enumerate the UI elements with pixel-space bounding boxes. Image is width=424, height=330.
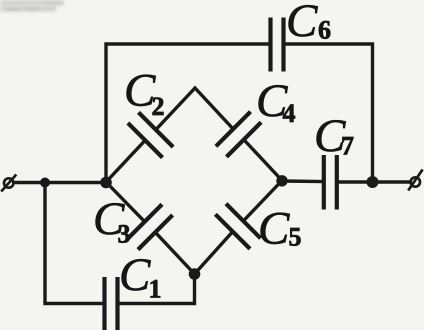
wire C5 to node D (195, 232, 233, 274)
wire C2 to top vertex T to C4 (156, 88, 233, 130)
left terminal (1, 175, 16, 192)
svg-text:2: 2 (152, 92, 165, 121)
node C junction dot (276, 175, 287, 186)
right rail junction dot (367, 176, 379, 188)
svg-text:4: 4 (283, 99, 296, 128)
wire node A down to bottom rail left (45, 183, 104, 304)
wire node C to C7 (282, 179, 324, 183)
watermark smudge top-left (0, 0, 64, 12)
label C2 (124, 65, 165, 122)
label C4 (256, 75, 296, 128)
svg-text:6: 6 (318, 16, 331, 45)
svg-text:7: 7 (341, 132, 354, 161)
label C1 (119, 249, 162, 304)
wire left rail up and top rail left (106, 44, 270, 184)
capacitor C7 plates (322, 155, 326, 210)
label C3 (93, 193, 131, 249)
svg-text:C: C (258, 203, 290, 255)
wire bottom rail right up to node D (118, 274, 195, 304)
wire C3 to node D (155, 232, 194, 274)
wire node A to node B (45, 181, 106, 184)
wire C4 to node C (244, 140, 282, 181)
label C6 (286, 0, 331, 47)
wire right junction to right terminal (373, 180, 411, 183)
capacitor C4 plates (216, 112, 251, 147)
node B junction dot (100, 177, 112, 189)
wire node C to C5 (243, 181, 282, 222)
node D junction dot (189, 268, 201, 280)
label C7 (314, 110, 354, 162)
wire left terminal to node A (13, 181, 45, 184)
wire B to C3 (106, 182, 145, 222)
node A junction dot (40, 178, 50, 188)
svg-text:C: C (286, 0, 318, 47)
wire diamond B to C2 (106, 140, 145, 182)
wire C7 to right junction (337, 180, 373, 183)
svg-text:3: 3 (118, 220, 131, 249)
svg-text:5: 5 (289, 223, 302, 252)
right terminal (408, 170, 422, 191)
capacitor C2 plates (128, 123, 163, 158)
capacitor C6 plates (268, 18, 272, 72)
wire top rail right and right rail down (284, 44, 373, 182)
capacitor C5 plates (226, 204, 261, 239)
capacitor C3 plates (127, 204, 162, 239)
svg-text:1: 1 (149, 275, 162, 304)
svg-text:C: C (119, 249, 151, 301)
label C5 (258, 203, 302, 255)
capacitor C1 plates (102, 277, 106, 330)
